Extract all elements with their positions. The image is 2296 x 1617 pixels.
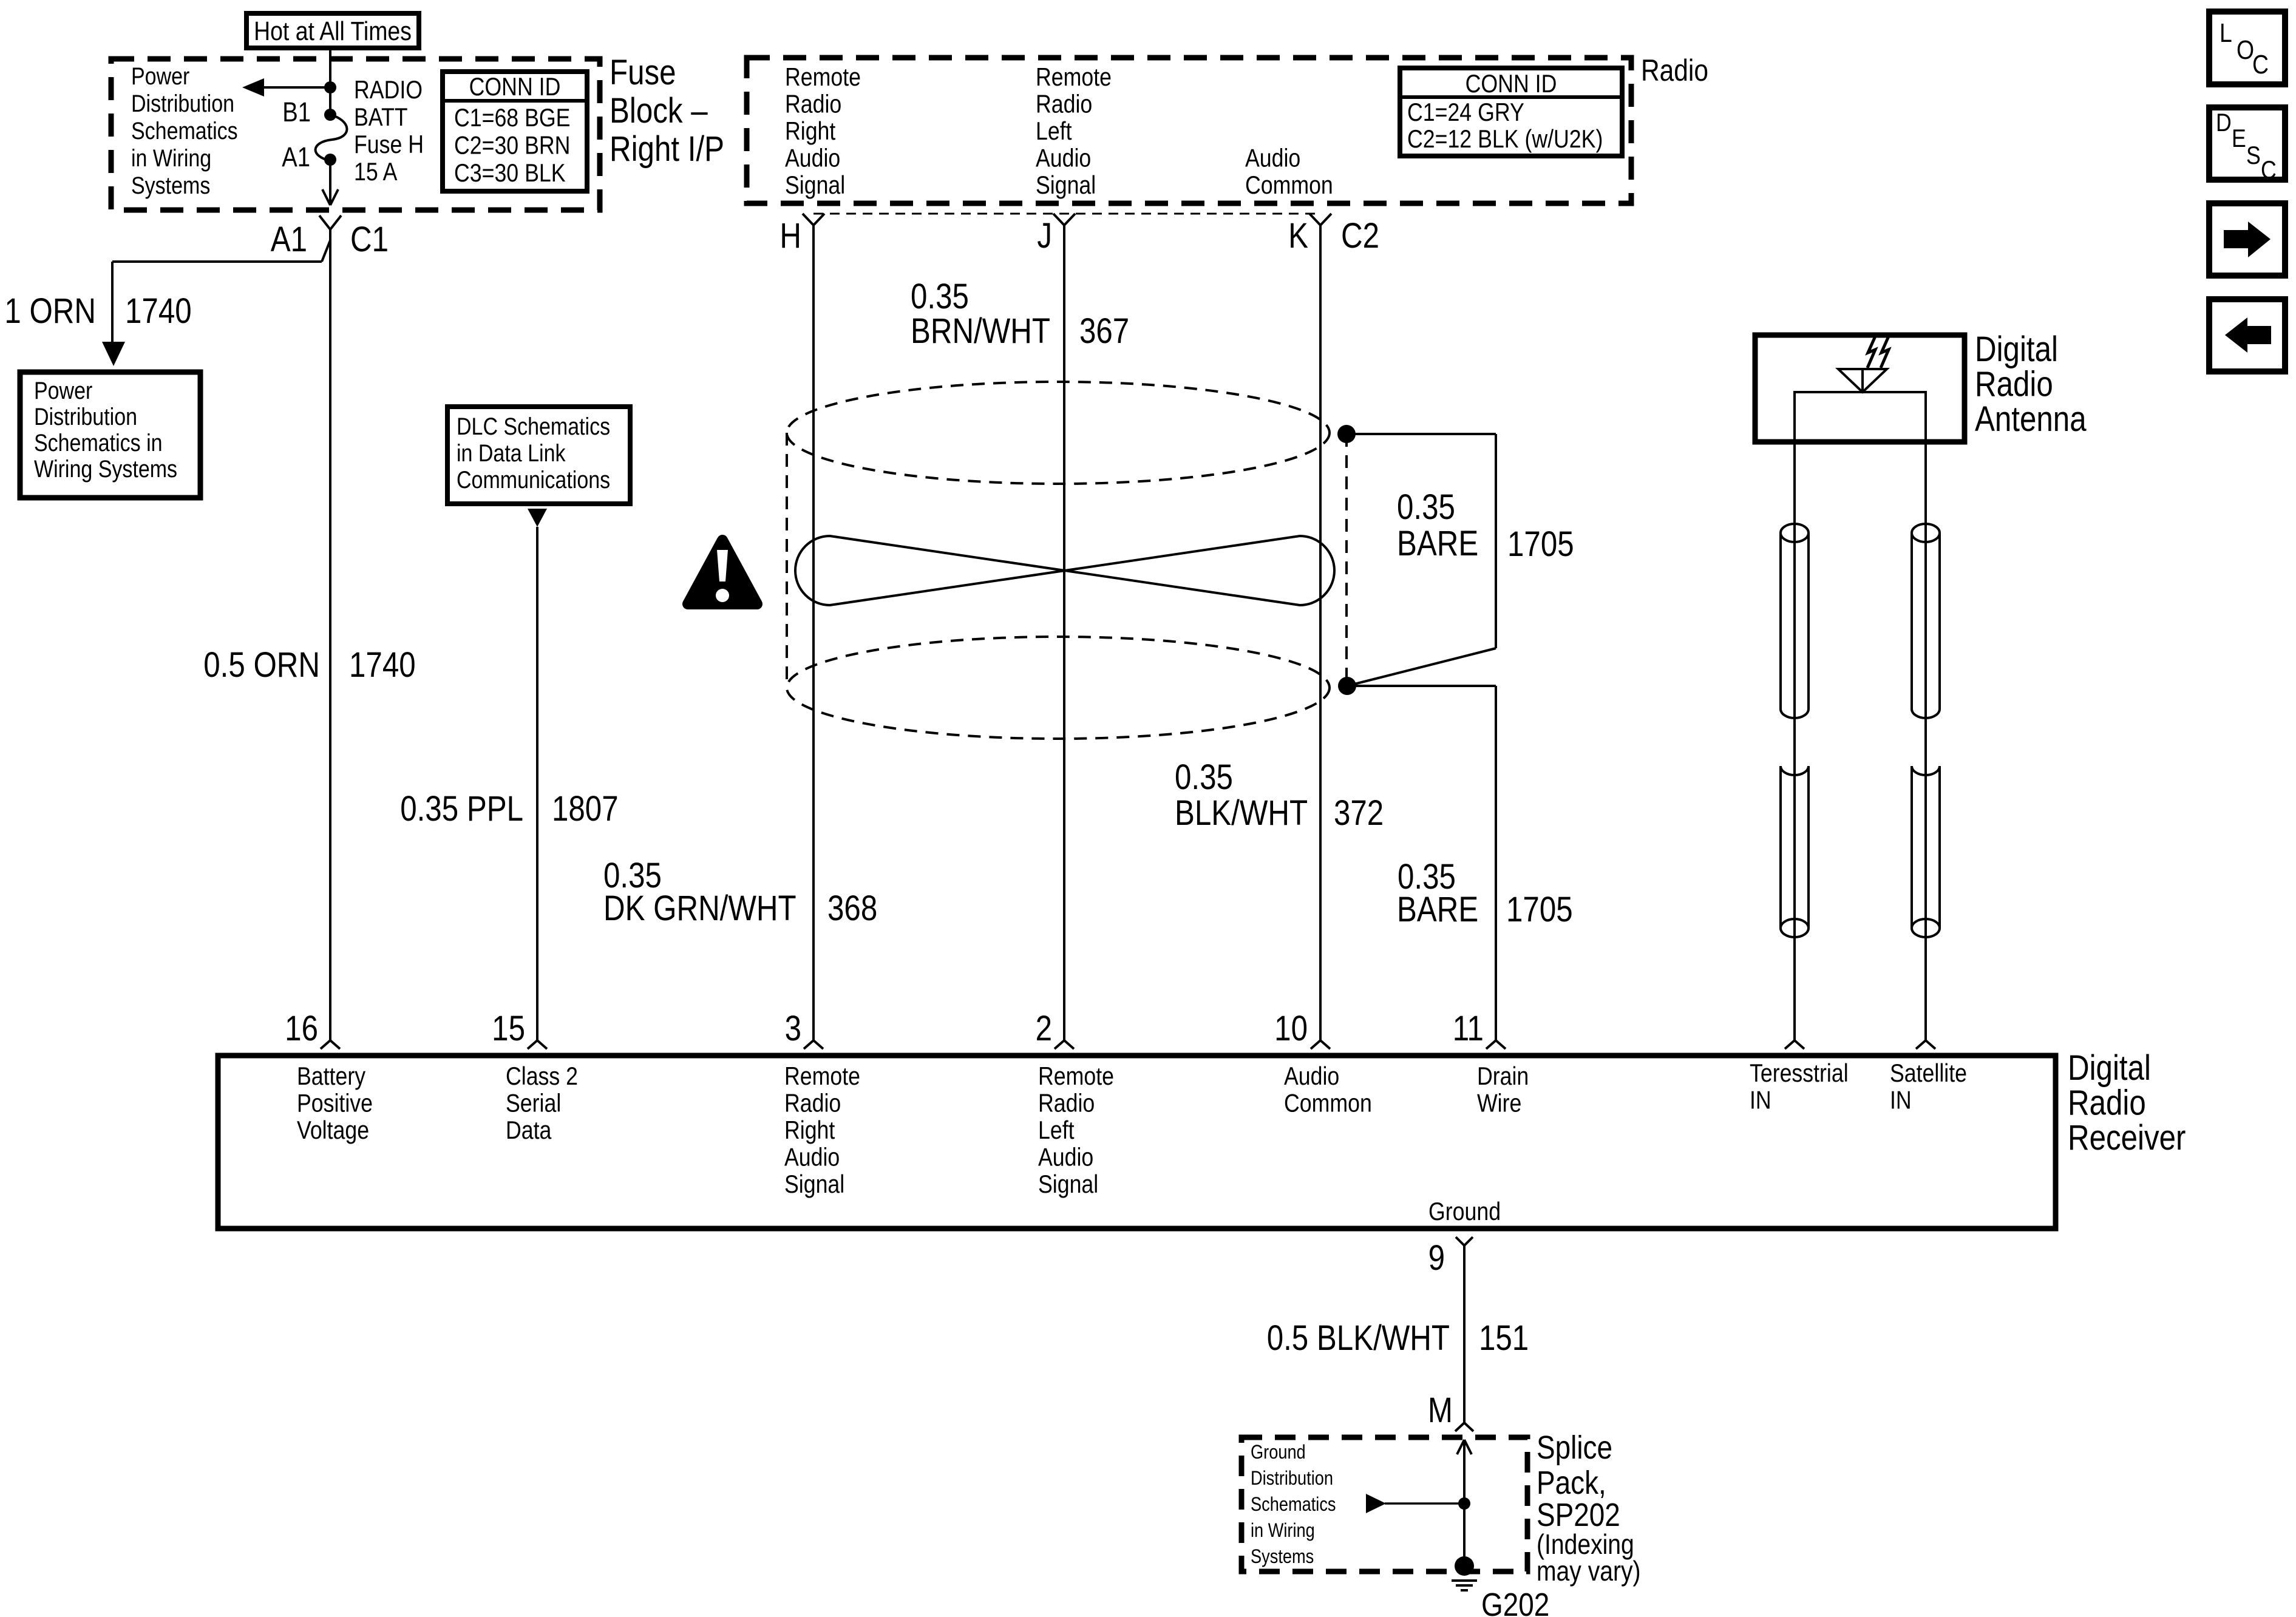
svg-text:Remote: Remote [784,1062,860,1090]
svg-text:1 ORN: 1 ORN [4,291,96,331]
svg-text:L: L [2220,18,2232,48]
svg-text:Digital: Digital [2068,1048,2151,1088]
wire: fuse output to connector C1 [329,160,331,205]
connector pin 2 chevron [1055,1040,1064,1049]
node: shield drain bottom junction [1338,677,1356,695]
arrow: male pin at fuse block output [322,189,330,205]
svg-text:15: 15 [492,1009,525,1048]
svg-text:Right: Right [785,117,835,145]
svg-text:Radio: Radio [1038,1090,1095,1117]
svg-text:C: C [2252,49,2269,80]
svg-text:Block –: Block – [610,91,708,131]
svg-text:Audio: Audio [1038,1144,1093,1171]
wire: drain top to 1705 loop [1347,433,1496,435]
connector pin 15 chevron [528,1040,537,1049]
svg-text:1807: 1807 [552,789,619,829]
svg-text:Satellite: Satellite [1890,1059,1967,1087]
svg-text:1705: 1705 [1506,890,1573,929]
next-page arrow [2224,230,2248,248]
svg-text:DK GRN/WHT: DK GRN/WHT [603,889,796,928]
svg-text:Distribution: Distribution [1251,1468,1333,1490]
svg-text:10: 10 [1274,1009,1308,1048]
svg-text:C2: C2 [1341,216,1379,256]
svg-text:2: 2 [1036,1009,1052,1048]
svg-text:C1=68 BGE: C1=68 BGE [454,104,570,132]
svg-text:Signal: Signal [785,171,845,199]
svg-text:Serial: Serial [506,1090,561,1117]
svg-text:Wire: Wire [1477,1090,1521,1117]
svg-text:RADIO: RADIO [354,76,423,104]
svg-text:Signal: Signal [784,1170,844,1198]
svg-text:Pack,: Pack, [1537,1465,1606,1501]
svg-text:Digital: Digital [1975,330,2058,369]
svg-text:J: J [1037,216,1052,256]
svg-text:DLC Schematics: DLC Schematics [457,412,610,439]
prev-page arrow [2247,326,2271,344]
svg-text:Fuse: Fuse [610,53,676,92]
svg-text:G202: G202 [1481,1587,1549,1617]
svg-text:IN: IN [1750,1086,1771,1114]
svg-text:Audio: Audio [1036,144,1091,172]
svg-text:Schematics: Schematics [131,117,238,144]
antenna lightning strokes [1867,336,1875,368]
coax sleeve lower right [1911,766,1913,928]
wire: 0.35 BARE 1705 drain to pin 11 [1347,685,1496,687]
node A1 [324,154,336,166]
power distribution schematics box [20,372,200,498]
wire: satellite antenna lead [1924,442,1927,1040]
next-page arrow box [2209,203,2285,276]
svg-text:9: 9 [1428,1238,1445,1278]
svg-text:C2=30 BRN: C2=30 BRN [454,132,570,160]
wire: battery feed from hot bar [329,48,331,114]
svg-text:C1: C1 [350,220,389,259]
svg-text:D: D [2216,109,2232,137]
connector pin 3 chevron [804,1040,813,1049]
hot at all times box [246,13,419,48]
svg-text:0.35: 0.35 [911,277,969,316]
connector pin 11 chevron [1486,1040,1496,1049]
warning triangle [688,540,757,604]
svg-text:Antenna: Antenna [1975,399,2087,439]
shield bottom ellipse (dashed) [787,637,1330,739]
svg-text:SP202: SP202 [1537,1497,1620,1533]
connector pin 10 chevron [1311,1040,1320,1049]
coax sleeve upper right [1911,533,1913,709]
svg-text:Ground: Ground [1251,1442,1306,1463]
connector pin K [1309,214,1320,225]
antenna inner box [1795,392,1926,442]
wire: from ground distribution reference [1385,1502,1464,1505]
shield left dashed edge [786,433,788,688]
svg-text:151: 151 [1479,1318,1529,1358]
svg-text:Power: Power [34,376,92,404]
radio CONN ID table [1400,68,1622,156]
connector pin 16 chevron [321,1040,330,1049]
svg-text:Hot at All Times: Hot at All Times [254,16,412,46]
svg-text:367: 367 [1079,311,1129,351]
svg-text:0.5 ORN: 0.5 ORN [203,645,320,685]
svg-text:11: 11 [1453,1009,1484,1048]
svg-text:Radio: Radio [1641,53,1708,87]
svg-text:0.5 BLK/WHT: 0.5 BLK/WHT [1267,1318,1450,1358]
twisted pair symbol [795,536,1334,605]
wire: 0.35 BLK/WHT 372 audio common pin K to pin 10 [1319,225,1322,1040]
connector M female half [1455,1423,1464,1431]
svg-text:S: S [2246,141,2261,169]
svg-text:E: E [2232,124,2246,152]
svg-text:Remote: Remote [1036,63,1112,91]
svg-text:Common: Common [1284,1090,1372,1117]
svg-text:Left: Left [1038,1116,1075,1144]
svg-text:Battery: Battery [297,1062,366,1090]
svg-text:A1: A1 [271,220,307,259]
svg-text:Remote: Remote [1038,1062,1114,1090]
svg-text:Signal: Signal [1036,171,1096,199]
svg-text:Signal: Signal [1038,1170,1098,1198]
connector pin 9 chevron [1456,1237,1464,1246]
svg-text:Voltage: Voltage [297,1116,369,1144]
DLC schematics box [447,407,630,504]
DESC box [2209,107,2285,180]
fuse block CONN ID table [443,72,587,191]
wire: splice internal [1463,1440,1466,1566]
svg-text:Remote: Remote [785,63,861,91]
svg-text:Right: Right [784,1116,835,1144]
svg-text:Schematics in: Schematics in [34,429,163,456]
ground G202 hatch [1452,1579,1477,1582]
svg-text:Audio: Audio [1284,1062,1339,1090]
svg-text:may vary): may vary) [1537,1556,1641,1587]
svg-text:M: M [1428,1391,1453,1430]
svg-text:Ground: Ground [1428,1198,1501,1225]
svg-text:Systems: Systems [1251,1546,1314,1568]
svg-text:C3=30 BLK: C3=30 BLK [454,159,566,187]
svg-text:BLK/WHT: BLK/WHT [1175,793,1308,833]
svg-text:Radio: Radio [2068,1083,2146,1123]
warning triangle exclamation [717,550,728,581]
svg-text:Audio: Audio [784,1144,840,1171]
arrow: ground distribution reference [1366,1494,1386,1513]
ground G202 dot [1455,1556,1474,1576]
svg-text:16: 16 [285,1009,318,1048]
svg-text:BARE: BARE [1397,890,1478,929]
svg-text:O: O [2237,35,2254,65]
svg-text:BARE: BARE [1397,524,1478,563]
svg-text:Fuse H: Fuse H [354,131,424,158]
node: splice junction SP202 [1458,1497,1470,1510]
svg-text:3: 3 [785,1009,801,1048]
wire: branch from C1 to power distribution page [322,240,330,262]
svg-text:H: H [779,216,801,256]
svg-text:K: K [1288,216,1308,256]
svg-text:1705: 1705 [1507,524,1574,564]
svg-text:Schematics: Schematics [1251,1494,1336,1516]
svg-text:Audio: Audio [785,144,840,172]
svg-text:Splice: Splice [1537,1429,1612,1466]
node: junction dot to power distribution arrow [324,81,336,93]
svg-text:Common: Common [1245,171,1333,199]
splice pack dashed box [1241,1437,1527,1571]
svg-text:Positive: Positive [297,1090,373,1117]
svg-text:BRN/WHT: BRN/WHT [911,311,1050,351]
prev-page arrow box [2209,299,2285,371]
svg-text:Distribution: Distribution [131,89,234,117]
digital radio receiver box [218,1056,2056,1229]
wire: terrestrial antenna lead [1793,442,1796,1040]
svg-text:0.35 PPL: 0.35 PPL [400,789,523,829]
connector terrestrial IN chevron [1785,1040,1795,1049]
arrow: from DLC box down [528,509,547,527]
svg-text:IN: IN [1890,1086,1912,1114]
svg-text:in Data Link: in Data Link [457,439,566,466]
LOC box [2209,12,2285,84]
node: shield drain top junction [1337,425,1356,443]
svg-text:BATT: BATT [354,103,408,131]
connector A1/C1 female half [319,215,330,229]
svg-text:A1: A1 [282,141,310,172]
svg-text:1740: 1740 [349,645,416,685]
svg-text:Communications: Communications [457,466,610,493]
wire: remote radio left audio signal pin J to pin 2 [1063,225,1065,1040]
connector pin H [803,214,813,225]
shield right dashed edge (drain) [1345,434,1348,686]
svg-text:Power: Power [131,62,189,89]
svg-text:Distribution: Distribution [34,402,137,430]
shield top ellipse (dashed) [787,382,1330,484]
svg-text:Receiver: Receiver [2068,1118,2186,1158]
svg-text:0.35: 0.35 [1397,487,1455,527]
svg-text:Radio: Radio [785,90,841,118]
svg-text:CONN ID: CONN ID [1466,70,1557,98]
svg-text:in Wiring: in Wiring [131,144,211,171]
svg-text:Radio: Radio [784,1090,841,1117]
antenna symbol triangle [1838,369,1887,392]
node B1 [324,109,336,121]
svg-text:C: C [2261,156,2277,184]
svg-text:Right I/P: Right I/P [610,129,724,169]
fuse H 15A symbol [316,115,347,161]
wire: 0.5 BLK/WHT 151 ground to splice [1463,1246,1466,1423]
svg-text:Data: Data [506,1116,552,1144]
wire: 0.35 BRN/WHT 367 pin H to pin 3 [812,225,815,1040]
wire: branch to power distribution schematics [263,86,330,89]
svg-text:Wiring Systems: Wiring Systems [34,455,177,482]
svg-text:0.35: 0.35 [1175,758,1233,797]
radio dashed box [747,58,1631,203]
svg-text:15 A: 15 A [354,158,397,186]
svg-text:C1=24 GRY: C1=24 GRY [1407,98,1524,126]
connector C2 face dashed line [813,213,1320,215]
svg-text:Drain: Drain [1477,1062,1529,1090]
coax sleeve upper left [1779,533,1782,709]
svg-text:368: 368 [827,889,877,928]
arrow: down into power distribution box [102,342,125,366]
wire: 0.5 ORN 1740 battery feed to pin 16 [329,229,331,1040]
svg-text:Radio: Radio [1975,365,2053,404]
connector satellite IN chevron [1916,1040,1926,1049]
svg-text:Teresstrial: Teresstrial [1750,1059,1849,1087]
svg-text:Systems: Systems [131,171,210,198]
arrow: male pin up into splice pack [1457,1440,1464,1454]
connector pin J [1053,214,1064,225]
wire: 0.35 PPL 1807 class 2 serial data to pin 15 [536,527,538,1040]
svg-text:372: 372 [1334,793,1384,833]
svg-text:Class 2: Class 2 [506,1062,578,1090]
svg-text:1740: 1740 [125,291,192,331]
svg-text:B1: B1 [282,97,311,127]
coax sleeve lower left [1779,766,1782,928]
svg-text:Left: Left [1036,117,1072,145]
svg-text:CONN ID: CONN ID [469,73,561,101]
svg-text:Audio: Audio [1245,144,1300,172]
fuse block dashed box [111,59,600,210]
svg-text:C2=12 BLK (w/U2K): C2=12 BLK (w/U2K) [1407,125,1603,153]
svg-text:in Wiring: in Wiring [1251,1520,1315,1542]
arrow: power distribution reference (left) [242,78,264,97]
digital radio antenna box [1755,335,1965,442]
svg-text:Radio: Radio [1036,90,1092,118]
